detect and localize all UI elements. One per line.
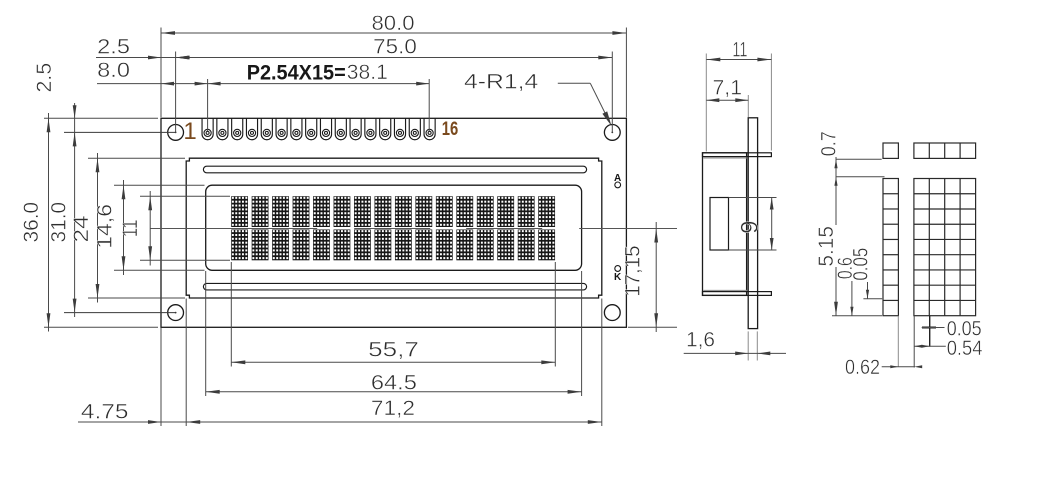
- svg-text:11: 11: [119, 220, 142, 238]
- bottom slot in bezel: [203, 283, 586, 290]
- svg-text:31.0: 31.0: [47, 202, 70, 243]
- dimension 71,2 bezel width: [185, 299, 187, 427]
- pin 5: [261, 118, 272, 139]
- detail: left dot column: [883, 179, 898, 316]
- cathode circle: [615, 266, 621, 272]
- dimension 1,6 PCB thickness: [747, 331, 749, 360]
- dimension 7,1 bezel depth: [747, 95, 749, 117]
- dimension 11 side overall depth: [705, 54, 707, 152]
- display window: [206, 185, 582, 270]
- side view backlight block: [710, 198, 729, 251]
- dimension 80.0 overall width: [160, 28, 162, 118]
- detail: top row of dots: [914, 143, 976, 158]
- svg-text:80.0: 80.0: [372, 12, 415, 35]
- LCD metal bezel frame: [186, 158, 602, 298]
- svg-text:55,7: 55,7: [368, 339, 419, 362]
- pin 7: [291, 118, 302, 139]
- svg-text:0.62: 0.62: [845, 356, 880, 379]
- svg-text:2.5: 2.5: [33, 63, 56, 93]
- svg-text:38.1: 38.1: [347, 61, 388, 84]
- pin 10: [335, 118, 346, 139]
- pin 16: [424, 118, 435, 139]
- svg-text:7,1: 7,1: [713, 77, 743, 100]
- dimension 0.54: [914, 345, 946, 347]
- pin 11: [350, 118, 361, 139]
- svg-text:11: 11: [732, 39, 747, 62]
- 16x2 character dot-matrix blocks: [231, 196, 248, 227]
- dimension 64.5 window width: [205, 271, 207, 396]
- dimension 2.5 edge to hole: [96, 57, 176, 59]
- detail: top-left single dot: [883, 143, 898, 158]
- detail: main dot grid: [914, 179, 976, 316]
- svg-text:2.5: 2.5: [97, 35, 130, 58]
- dimension 2.5 top edge to hole (rotated): [73, 105, 77, 118]
- mounting hole bottom-right: [604, 305, 620, 321]
- pin 2: [217, 118, 228, 139]
- detail lower extension lines: [897, 316, 899, 367]
- PCB outline front view: [161, 118, 626, 327]
- pin 8: [306, 118, 317, 139]
- svg-text:24: 24: [70, 215, 93, 242]
- dimension 36.0 overall height: [44, 117, 158, 119]
- mounting hole top-left: [168, 124, 184, 140]
- dimension 75.0 hole spacing: [175, 52, 177, 133]
- dimension P2.54X15=38.1 pin pitch: [207, 79, 209, 131]
- svg-text:36.0: 36.0: [20, 202, 43, 243]
- svg-text:16: 16: [442, 118, 459, 140]
- pin 1: [202, 118, 213, 139]
- svg-text:64.5: 64.5: [371, 371, 417, 394]
- svg-text:75.0: 75.0: [373, 35, 417, 58]
- svg-text:P2.54X15=: P2.54X15=: [247, 61, 346, 84]
- dimension 0.05 right: [922, 327, 936, 329]
- svg-text:14,6: 14,6: [94, 204, 117, 249]
- dimension 9 backlight height: [729, 197, 777, 199]
- pin 3: [232, 118, 243, 139]
- svg-text:4.75: 4.75: [81, 401, 129, 424]
- pin 6: [276, 118, 287, 139]
- dimension 8.0 edge to pin1: [97, 83, 208, 85]
- dimension 31.0 hole spacing vertical: [64, 131, 176, 133]
- side view PCB board: [748, 118, 757, 329]
- dimension 5.15: [834, 302, 838, 316]
- side view bezel tabs: [703, 153, 772, 157]
- side view bezel body: [703, 153, 747, 296]
- top slot in bezel: [203, 166, 586, 173]
- svg-text:0.54: 0.54: [947, 337, 983, 360]
- svg-text:9: 9: [737, 221, 764, 234]
- pin 12: [365, 118, 376, 139]
- dimension 14,6 window height: [114, 184, 205, 186]
- dimension 11 char area height: [140, 195, 230, 197]
- hole center marks: [175, 132, 177, 134]
- svg-text:71,2: 71,2: [371, 397, 415, 420]
- pin 4: [246, 118, 257, 139]
- horizontal centerline: [150, 228, 677, 230]
- pin 15: [409, 118, 420, 139]
- svg-text:1,6: 1,6: [686, 329, 715, 352]
- mounting hole bottom-left: [168, 305, 184, 321]
- pin 9: [320, 118, 331, 139]
- dimension 55,7 char area width: [230, 262, 232, 367]
- svg-text:0.05: 0.05: [849, 248, 872, 281]
- dimension 24 bezel height: [88, 157, 185, 159]
- svg-text:4-R1,4: 4-R1,4: [464, 71, 539, 94]
- pin 14: [394, 118, 405, 139]
- dimension 0.62: [882, 366, 915, 368]
- svg-text:8.0: 8.0: [97, 59, 130, 82]
- mounting hole top-right: [604, 124, 620, 140]
- anode circle: [615, 182, 621, 188]
- pin 13: [380, 118, 391, 139]
- svg-text:1: 1: [183, 118, 196, 145]
- svg-text:0.7: 0.7: [818, 131, 841, 156]
- svg-text:17,15: 17,15: [622, 245, 645, 296]
- dimension 17,15 center to bottom: [628, 326, 677, 328]
- dimension 4.75 pcb edge to bezel: [160, 328, 162, 426]
